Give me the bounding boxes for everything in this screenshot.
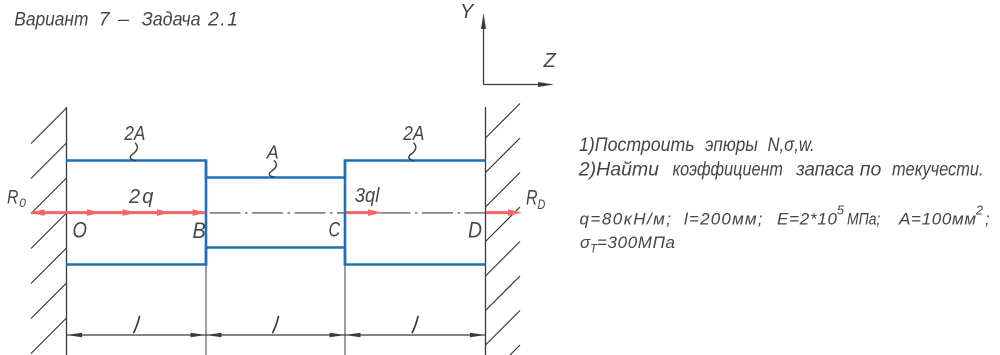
svg-text:R: R [526,185,538,209]
svg-text:O: O [73,219,88,243]
svg-text:2A: 2A [402,122,424,145]
svg-text:Задача: Задача [142,8,201,30]
svg-text:N,σ,w.: N,σ,w. [768,134,815,155]
svg-text:7: 7 [99,8,111,30]
svg-text:эпюры: эпюры [705,133,758,155]
svg-text:2)Найти: 2)Найти [578,158,659,180]
svg-text:2: 2 [975,204,983,218]
svg-text:2.1: 2.1 [207,8,238,30]
svg-text:Вариант: Вариант [14,7,88,29]
svg-text:–: – [117,8,129,30]
svg-text:=300МПа: =300МПа [597,233,675,252]
svg-text:2q: 2q [128,186,153,208]
svg-text:D: D [538,197,546,213]
svg-text:E=2*10: E=2*10 [777,210,838,229]
svg-text:B: B [193,219,206,243]
svg-text:R: R [7,186,19,208]
svg-text:текучести.: текучести. [892,158,984,180]
svg-text:Y: Y [460,1,475,23]
svg-text:2A: 2A [123,122,145,145]
svg-text:A: A [266,143,279,163]
svg-text:A=100мм: A=100мм [898,210,976,229]
svg-text:C: C [329,218,341,242]
svg-text:5: 5 [837,204,844,218]
svg-text:q=80кН/м;: q=80кН/м; [580,210,672,229]
svg-text:Z: Z [543,50,557,72]
svg-text:0: 0 [19,196,26,210]
svg-text:запаса: запаса [795,159,854,181]
svg-text:по: по [860,158,882,180]
svg-text:МПа;: МПа; [847,210,880,229]
svg-text:l=200мм;: l=200мм; [684,210,763,229]
svg-text:3ql: 3ql [355,185,380,207]
svg-text:D: D [468,218,482,242]
svg-text:коэффициент: коэффициент [673,158,784,180]
svg-text:;: ; [985,210,990,229]
svg-text:1)Построить: 1)Построить [579,133,695,155]
